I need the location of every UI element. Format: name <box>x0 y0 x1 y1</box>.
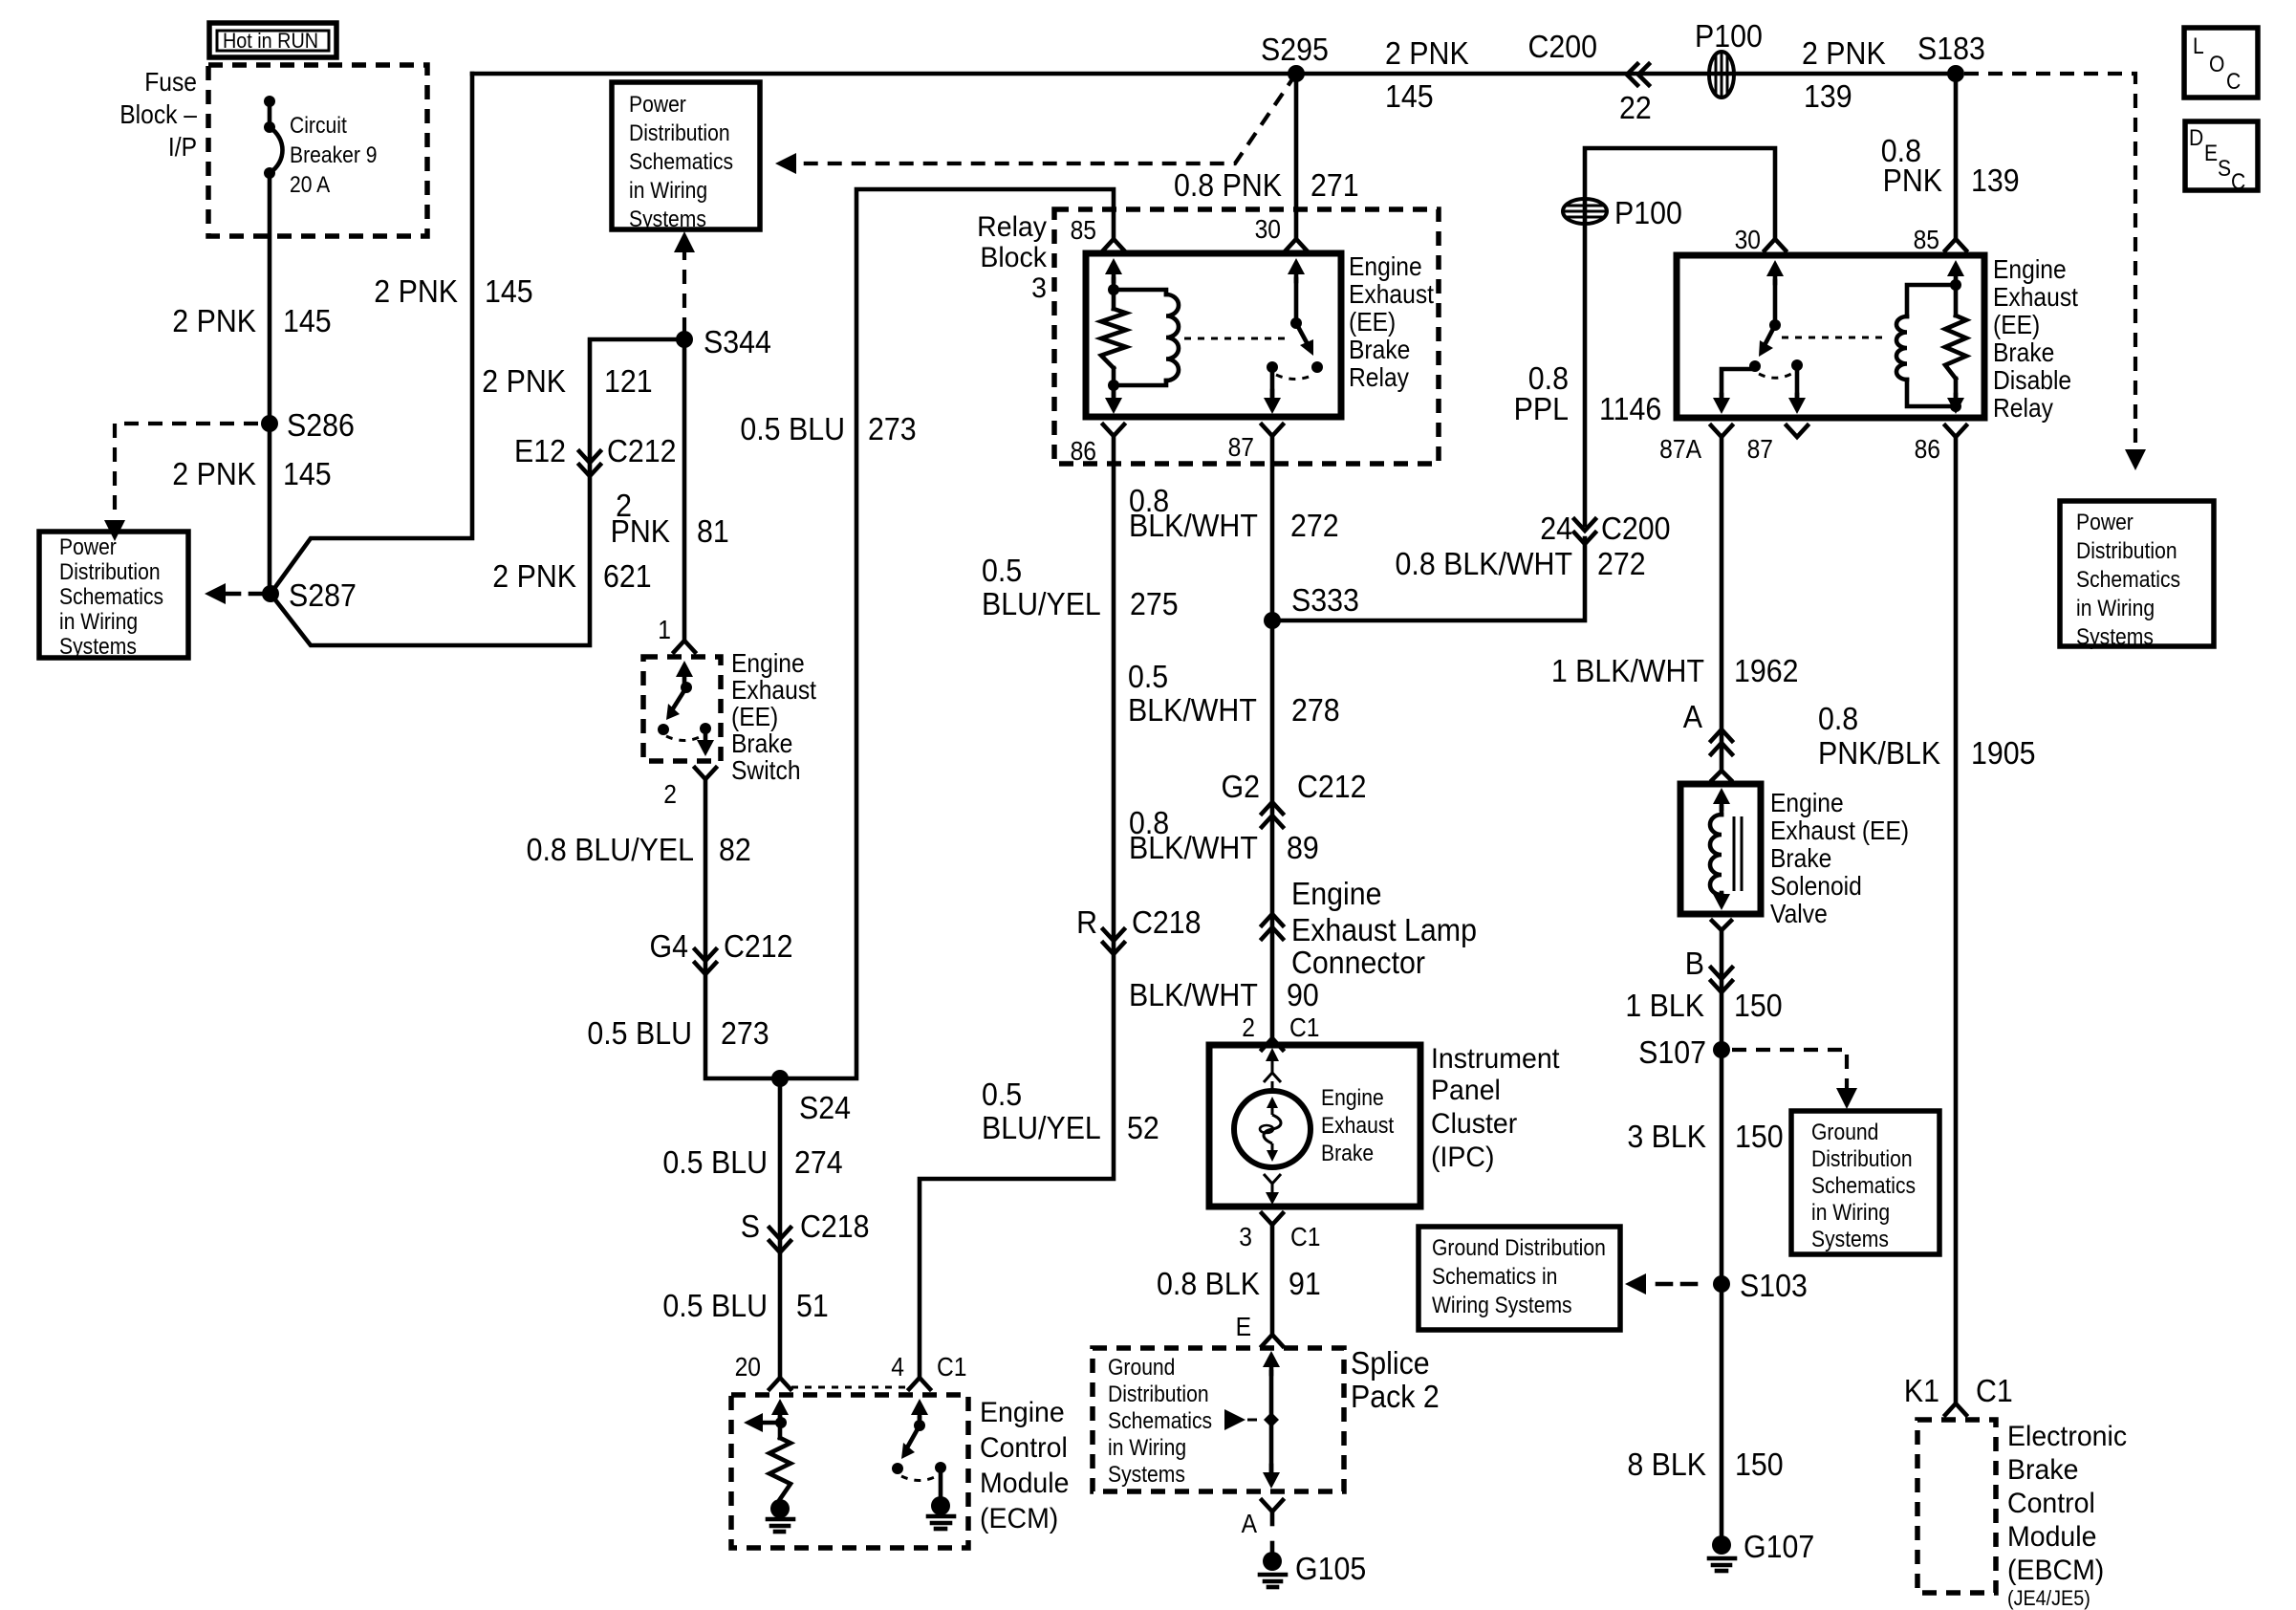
dashed arrow S103 to ground distribution box (left) <box>1625 1273 1646 1295</box>
svg-text:Switch: Switch <box>731 755 801 786</box>
brake switch internals <box>682 670 687 685</box>
svg-text:BLK/WHT: BLK/WHT <box>1128 692 1257 728</box>
svg-text:G107: G107 <box>1744 1529 1814 1564</box>
power distribution schematics box (right) <box>2060 501 2214 646</box>
Hot in RUN header box <box>209 23 336 57</box>
svg-text:Engine: Engine <box>980 1397 1065 1428</box>
svg-text:3: 3 <box>1031 272 1047 304</box>
svg-text:Schematics: Schematics <box>2076 567 2180 593</box>
svg-text:Brake: Brake <box>1321 1141 1374 1166</box>
svg-text:1 BLK: 1 BLK <box>1625 988 1704 1023</box>
svg-text:Distribution: Distribution <box>2076 538 2177 564</box>
svg-text:Schematics in: Schematics in <box>1432 1264 1557 1290</box>
pin 87A chevron and label <box>1711 425 1732 437</box>
EE brake relay solid box <box>1086 253 1341 417</box>
svg-text:S344: S344 <box>704 324 771 359</box>
svg-text:Relay: Relay <box>1993 393 2054 424</box>
svg-text:BLU/YEL: BLU/YEL <box>982 586 1101 621</box>
ECM resistor <box>778 1423 783 1438</box>
circuit breaker CB9 symbol <box>264 96 275 107</box>
svg-text:91: 91 <box>1289 1266 1321 1301</box>
IPC pin 3 C1 chevron and label <box>1262 1213 1283 1225</box>
svg-text:87A: 87A <box>1659 434 1701 465</box>
svg-text:G2: G2 <box>1222 769 1260 804</box>
wire IPC pin 3 down to splice pack (0.8 BLK 91) <box>1270 1225 1275 1333</box>
svg-text:A: A <box>1683 699 1703 734</box>
svg-text:139: 139 <box>1971 163 2020 198</box>
svg-text:Exhaust: Exhaust <box>1321 1113 1395 1139</box>
svg-text:C1: C1 <box>1976 1373 2013 1408</box>
solenoid pin B chevron <box>1712 921 1731 930</box>
svg-text:8 BLK: 8 BLK <box>1627 1447 1706 1482</box>
P100 grommet on top wire <box>1709 52 1734 98</box>
svg-text:P100: P100 <box>1695 18 1763 54</box>
svg-text:0.5 BLU: 0.5 BLU <box>740 411 845 446</box>
svg-text:Systems: Systems <box>59 634 137 660</box>
svg-text:272: 272 <box>1290 508 1339 543</box>
power distribution schematics box (lower left) <box>39 532 188 658</box>
svg-text:Systems: Systems <box>1108 1462 1185 1488</box>
wire S287 up to top feed (2 PNK 145) <box>271 74 472 594</box>
svg-text:Systems: Systems <box>1811 1227 1889 1252</box>
wire from circuit breaker down to S287 (2 PNK 145) <box>268 173 272 594</box>
svg-text:0.5 BLU: 0.5 BLU <box>662 1144 768 1180</box>
node S295 <box>1288 65 1305 82</box>
ground G105 <box>1263 1552 1282 1571</box>
svg-text:Engine: Engine <box>1770 788 1844 818</box>
dashed arrow from S344 up to power distribution box <box>682 247 686 332</box>
svg-text:S103: S103 <box>1740 1268 1808 1303</box>
solenoid internals <box>1720 797 1724 809</box>
svg-text:P100: P100 <box>1614 195 1682 230</box>
svg-text:C218: C218 <box>800 1208 870 1244</box>
IPC lamp feed arrow <box>1271 1055 1274 1073</box>
instrument panel cluster box <box>1209 1045 1420 1207</box>
disable relay coil <box>1907 285 1956 316</box>
svg-text:S: S <box>741 1208 760 1244</box>
svg-text:C200: C200 <box>1527 29 1597 64</box>
splice pack wire <box>1269 1360 1274 1374</box>
svg-text:0.5: 0.5 <box>982 1077 1022 1112</box>
svg-text:85: 85 <box>1071 215 1096 246</box>
svg-text:Ground: Ground <box>1811 1120 1878 1145</box>
svg-text:C200: C200 <box>1601 511 1671 546</box>
svg-text:Circuit: Circuit <box>290 113 347 139</box>
svg-text:87: 87 <box>1228 432 1254 463</box>
svg-text:2 PNK: 2 PNK <box>172 456 256 491</box>
wire S333 to C200 riser <box>1272 538 1585 620</box>
svg-text:82: 82 <box>719 832 751 867</box>
DESC legend box <box>2185 121 2258 190</box>
svg-text:90: 90 <box>1287 977 1319 1012</box>
svg-text:A: A <box>1242 1509 1258 1539</box>
ECM internal pull arrow <box>761 1421 780 1425</box>
ground G107 <box>1712 1535 1731 1555</box>
svg-text:Brake: Brake <box>1349 335 1410 365</box>
pin 87 chevron and label <box>1262 424 1283 436</box>
svg-text:PNK: PNK <box>611 513 670 549</box>
svg-text:20 A: 20 A <box>290 172 331 198</box>
main top feed wire 2 PNK 145 <box>472 72 1956 76</box>
svg-text:1: 1 <box>658 615 671 645</box>
node S107 <box>1713 1041 1730 1058</box>
wire S287 to S344 branch (2 PNK 621/121) <box>271 339 684 645</box>
svg-text:0.8 BLK/WHT: 0.8 BLK/WHT <box>1396 546 1572 581</box>
svg-text:I/P: I/P <box>168 132 197 163</box>
svg-text:Splice: Splice <box>1351 1345 1430 1381</box>
svg-text:Distribution: Distribution <box>1108 1382 1209 1407</box>
splice pack 2 dashed box <box>1093 1348 1344 1491</box>
svg-text:in Wiring: in Wiring <box>1108 1435 1186 1461</box>
svg-text:2 PNK: 2 PNK <box>1385 35 1469 71</box>
svg-text:Electronic: Electronic <box>2007 1421 2127 1452</box>
svg-text:C212: C212 <box>607 433 677 468</box>
svg-text:2 PNK: 2 PNK <box>172 303 256 338</box>
svg-text:0.5 BLU: 0.5 BLU <box>587 1015 692 1051</box>
svg-text:Brake: Brake <box>1770 843 1831 874</box>
svg-text:Engine: Engine <box>1349 251 1422 282</box>
svg-text:89: 89 <box>1287 830 1319 865</box>
svg-text:Ground: Ground <box>1108 1355 1175 1381</box>
svg-text:Module: Module <box>980 1468 1069 1499</box>
svg-text:in Wiring: in Wiring <box>2076 596 2155 621</box>
node S286 <box>261 415 278 432</box>
relay coil branch pin 85 <box>1112 268 1116 281</box>
svg-text:Fuse: Fuse <box>144 67 197 98</box>
svg-text:Engine: Engine <box>1291 876 1381 911</box>
wire relay pin 87 down to S333 (0.8 BLK/WHT 272) <box>1270 436 1275 620</box>
ECM internal ground (left) <box>770 1499 790 1518</box>
svg-text:Power: Power <box>2076 510 2134 535</box>
svg-text:1962: 1962 <box>1734 653 1799 688</box>
pin 2 connector chevron <box>695 768 716 779</box>
wire C200 up to disable relay pin 30 (0.8 PPL 1146) <box>1585 148 1775 525</box>
svg-text:R: R <box>1076 904 1097 940</box>
svg-text:2 PNK: 2 PNK <box>482 363 566 399</box>
svg-text:Module: Module <box>2007 1521 2096 1553</box>
wire disable relay pin 86 down to EBCM (0.8 PNK/BLK 1905) <box>1954 437 1959 1403</box>
svg-text:Schematics: Schematics <box>59 584 163 610</box>
svg-text:145: 145 <box>1385 78 1434 114</box>
svg-text:Engine: Engine <box>1321 1085 1384 1111</box>
svg-text:(JE4/JE5): (JE4/JE5) <box>2007 1587 2090 1610</box>
svg-text:Pack 2: Pack 2 <box>1351 1379 1440 1414</box>
svg-text:86: 86 <box>1915 434 1940 465</box>
relay switch pin 30 <box>1294 268 1299 281</box>
svg-text:Valve: Valve <box>1770 899 1828 929</box>
electronic brake control module dashed box <box>1917 1420 1996 1593</box>
svg-text:S286: S286 <box>287 407 355 443</box>
svg-text:C1: C1 <box>937 1352 966 1382</box>
svg-text:2: 2 <box>663 779 677 810</box>
svg-text:E: E <box>1236 1312 1251 1342</box>
svg-text:145: 145 <box>283 456 332 491</box>
node S344 <box>676 331 693 348</box>
svg-text:121: 121 <box>604 363 653 399</box>
svg-text:in Wiring: in Wiring <box>629 178 707 204</box>
dashed branch S183 to power distribution box (right) <box>1964 74 2135 447</box>
ECM switch arm <box>906 1425 920 1449</box>
svg-text:2: 2 <box>1242 1012 1255 1043</box>
svg-text:85: 85 <box>1914 225 1939 255</box>
svg-text:0.5: 0.5 <box>982 553 1022 588</box>
svg-text:Control: Control <box>2007 1488 2095 1519</box>
svg-text:Block: Block <box>980 242 1047 273</box>
svg-text:Exhaust: Exhaust <box>1349 279 1435 310</box>
svg-text:(ECM): (ECM) <box>980 1503 1058 1534</box>
disable relay switch arm <box>1764 325 1775 347</box>
ECM connector dash line <box>791 1386 908 1389</box>
svg-text:2 PNK: 2 PNK <box>492 558 576 594</box>
svg-text:O: O <box>2209 52 2224 77</box>
svg-text:3: 3 <box>1239 1222 1252 1252</box>
svg-text:0.8 PNK: 0.8 PNK <box>1174 167 1282 203</box>
IPC exit chevron to pin 3 <box>1264 1174 1281 1184</box>
svg-text:150: 150 <box>1735 1119 1784 1154</box>
disable relay coil branch pin 85 <box>1954 270 1959 283</box>
splice pack pin A chevron and label <box>1262 1500 1283 1512</box>
svg-text:621: 621 <box>603 558 652 594</box>
svg-text:81: 81 <box>697 513 729 549</box>
disable relay coil exit pin 86 <box>1954 395 1959 404</box>
P100 grommet (vertical wire) <box>1563 199 1607 224</box>
svg-text:B: B <box>1685 946 1704 981</box>
svg-text:C: C <box>2226 69 2241 95</box>
svg-text:86: 86 <box>1071 436 1096 467</box>
svg-text:Ground Distribution: Ground Distribution <box>1432 1235 1606 1261</box>
svg-text:150: 150 <box>1735 1447 1784 1482</box>
svg-text:274: 274 <box>794 1144 843 1180</box>
svg-text:Hot in RUN: Hot in RUN <box>223 30 318 53</box>
svg-text:Connector: Connector <box>1291 945 1425 980</box>
svg-text:150: 150 <box>1734 988 1783 1023</box>
svg-text:87: 87 <box>1747 434 1773 465</box>
wire S333 continues down to IPC pin 2 (0.5 BLK/WHT 278) <box>1270 620 1275 1038</box>
ECM internal ground (right) <box>939 1468 943 1497</box>
svg-text:BLK/WHT: BLK/WHT <box>1129 508 1258 543</box>
svg-text:51: 51 <box>796 1288 829 1323</box>
svg-text:S183: S183 <box>1917 31 1985 66</box>
splice junction <box>1264 1412 1279 1427</box>
svg-text:Distribution: Distribution <box>629 120 730 146</box>
engine exhaust brake solenoid valve box <box>1680 784 1761 914</box>
svg-text:273: 273 <box>721 1015 769 1051</box>
pin 86 chevron and label <box>1945 425 1966 437</box>
node S103 <box>1713 1275 1730 1293</box>
svg-text:G4: G4 <box>650 928 688 964</box>
svg-text:Exhaust (EE): Exhaust (EE) <box>1770 816 1909 846</box>
wire S295 down to relay pin 30 (0.8 PNK 271) <box>1294 74 1299 239</box>
svg-text:0.8: 0.8 <box>1818 701 1858 736</box>
engine exhaust brake switch dashed box <box>643 657 721 761</box>
svg-text:S295: S295 <box>1261 32 1329 67</box>
svg-text:24: 24 <box>1540 511 1572 546</box>
wire S183 down to disable relay pin 85 (0.8 PNK 139) <box>1954 74 1959 239</box>
svg-text:S287: S287 <box>289 577 357 613</box>
pin 87 chevron and label <box>1787 425 1808 437</box>
svg-text:C: C <box>2231 169 2245 195</box>
svg-text:Distribution: Distribution <box>1811 1146 1913 1172</box>
disable relay switch link dashed <box>1782 337 1886 339</box>
svg-text:C1: C1 <box>1289 1012 1319 1043</box>
wire S24 down to ECM pin 20 (0.5 BLU 274/51) <box>778 1078 783 1378</box>
disable relay resistor <box>1954 285 1959 315</box>
wire 0.5 BLU 273 from S24 up over to relay pin 85 <box>780 189 1114 1078</box>
svg-text:(EE): (EE) <box>1349 307 1396 337</box>
svg-text:275: 275 <box>1130 586 1179 621</box>
svg-text:0.5 BLU: 0.5 BLU <box>662 1288 768 1323</box>
EE brake disable relay solid box <box>1677 255 1984 418</box>
svg-text:E: E <box>2204 141 2218 166</box>
svg-text:PNK/BLK: PNK/BLK <box>1818 735 1940 771</box>
svg-text:Wiring Systems: Wiring Systems <box>1432 1293 1572 1318</box>
svg-text:C218: C218 <box>1132 904 1202 940</box>
node S24 <box>771 1070 789 1087</box>
wire splice pack to G105 <box>1270 1512 1275 1524</box>
svg-text:E12: E12 <box>514 433 566 468</box>
disable relay pin 87 stub <box>1795 365 1800 398</box>
wire pin 87A down to solenoid valve (1 BLK/WHT 1962) <box>1720 437 1724 768</box>
svg-text:Block –: Block – <box>119 99 197 130</box>
svg-text:Brake: Brake <box>2007 1454 2078 1486</box>
svg-text:Schematics: Schematics <box>1811 1173 1916 1199</box>
ground distribution schematics in wiring systems box <box>1419 1227 1620 1330</box>
svg-text:Schematics: Schematics <box>629 149 733 175</box>
svg-text:PNK: PNK <box>1883 163 1942 198</box>
svg-text:22: 22 <box>1619 90 1652 125</box>
pin 1 connector chevron <box>674 641 695 652</box>
svg-text:Engine: Engine <box>1993 254 2067 285</box>
svg-text:Instrument: Instrument <box>1431 1043 1560 1075</box>
svg-text:C212: C212 <box>1297 769 1367 804</box>
dashed arrow from S287 into power distribution box <box>205 583 226 604</box>
svg-text:(EBCM): (EBCM) <box>2007 1555 2104 1586</box>
svg-text:0.8 BLK: 0.8 BLK <box>1157 1266 1260 1301</box>
svg-text:BLU/YEL: BLU/YEL <box>982 1110 1101 1145</box>
svg-text:52: 52 <box>1127 1110 1159 1145</box>
svg-text:Cluster: Cluster <box>1431 1108 1517 1140</box>
svg-text:3 BLK: 3 BLK <box>1627 1119 1706 1154</box>
svg-text:Power: Power <box>59 534 117 560</box>
svg-text:K1: K1 <box>1904 1373 1939 1408</box>
svg-text:C212: C212 <box>724 928 793 964</box>
svg-text:30: 30 <box>1255 214 1281 245</box>
svg-text:272: 272 <box>1597 546 1646 581</box>
svg-text:1905: 1905 <box>1971 735 2036 771</box>
svg-text:D: D <box>2189 125 2203 151</box>
svg-text:C1: C1 <box>1290 1222 1320 1252</box>
svg-text:Relay: Relay <box>977 211 1047 243</box>
svg-text:BLK/WHT: BLK/WHT <box>1129 977 1258 1012</box>
svg-text:(EE): (EE) <box>1993 310 2040 340</box>
pin 86 chevron and label <box>1103 424 1124 436</box>
engine exhaust lamp connector chevrons <box>1262 927 1283 939</box>
svg-text:Power: Power <box>629 92 686 118</box>
node S183 <box>1947 65 1964 82</box>
svg-text:145: 145 <box>283 303 332 338</box>
svg-text:Schematics: Schematics <box>1108 1408 1212 1434</box>
relay switch link dashed <box>1184 337 1289 340</box>
ECM pin 20 input arrow <box>778 1408 783 1420</box>
ground distribution schematics box (right) <box>1791 1111 1939 1254</box>
solenoid valve pin chevron <box>1712 771 1731 780</box>
wire relay pin 86 down to ECM pin 4 (0.5 BLU/YEL) <box>920 436 1114 1378</box>
engine exhaust brake indicator <box>1234 1091 1310 1167</box>
fuse block dashed box <box>208 65 427 236</box>
svg-text:20: 20 <box>735 1352 761 1382</box>
relay resistor <box>1112 290 1116 309</box>
svg-text:30: 30 <box>1735 225 1761 255</box>
dashed branch from S295 to power distribution (left arrow) <box>779 74 1296 163</box>
relay switch arm <box>1296 323 1309 346</box>
svg-text:2 PNK: 2 PNK <box>1802 35 1886 71</box>
node S333 <box>1264 612 1281 629</box>
svg-text:Distribution: Distribution <box>59 559 161 585</box>
svg-text:L: L <box>2193 33 2204 59</box>
svg-text:1 BLK/WHT: 1 BLK/WHT <box>1551 653 1704 688</box>
relay coil <box>1114 290 1166 294</box>
svg-text:Breaker 9: Breaker 9 <box>290 142 378 168</box>
svg-text:Control: Control <box>980 1432 1068 1464</box>
svg-text:S333: S333 <box>1291 582 1359 618</box>
svg-text:Relay: Relay <box>1349 362 1410 393</box>
svg-text:Systems: Systems <box>629 207 706 232</box>
svg-text:G105: G105 <box>1295 1551 1366 1586</box>
svg-text:Brake: Brake <box>1993 337 2054 368</box>
relay coil exit to pin 86 <box>1112 385 1116 398</box>
svg-text:in Wiring: in Wiring <box>1811 1200 1890 1226</box>
relay pin 87 exit <box>1270 367 1275 398</box>
wire switch pin 2 down to S24 (0.8 BLU/YEL 82) <box>705 779 780 1078</box>
svg-text:145: 145 <box>485 273 533 309</box>
svg-text:PPL: PPL <box>1514 391 1569 426</box>
svg-text:(IPC): (IPC) <box>1431 1142 1494 1173</box>
svg-text:4: 4 <box>891 1352 904 1382</box>
svg-text:2 PNK: 2 PNK <box>374 273 458 309</box>
svg-text:1146: 1146 <box>1599 391 1661 426</box>
dashed branch from S286 to power distribution box <box>115 424 258 518</box>
svg-text:BLK/WHT: BLK/WHT <box>1129 830 1258 865</box>
wire solenoid to G107 (1 BLK 150) <box>1720 930 1724 1549</box>
power distribution schematics box (mid top) <box>612 82 760 229</box>
wire S344 down to brake switch pin 1 (2 PNK 81) <box>682 339 687 641</box>
relay block 3 dashed box <box>1054 209 1439 464</box>
svg-text:Disable: Disable <box>1993 365 2071 396</box>
svg-text:273: 273 <box>868 411 917 446</box>
node S287 <box>262 585 279 602</box>
svg-text:S: S <box>2218 156 2231 182</box>
svg-text:271: 271 <box>1310 167 1359 203</box>
svg-text:in Wiring: in Wiring <box>59 609 138 635</box>
svg-text:Panel: Panel <box>1431 1075 1501 1106</box>
svg-text:0.5: 0.5 <box>1128 659 1168 694</box>
svg-text:0.8 BLU/YEL: 0.8 BLU/YEL <box>527 832 694 867</box>
disable relay pin 87A path <box>1722 366 1755 398</box>
svg-text:278: 278 <box>1291 692 1340 728</box>
svg-text:S24: S24 <box>799 1090 851 1125</box>
svg-text:Exhaust: Exhaust <box>1993 282 2079 313</box>
dashed branch S107 to ground distribution box <box>1732 1050 1847 1096</box>
ECM pin 4 input arrow <box>918 1408 922 1420</box>
svg-text:Solenoid: Solenoid <box>1770 871 1862 902</box>
LOC legend box <box>2184 28 2258 98</box>
svg-text:Systems: Systems <box>2076 624 2154 650</box>
svg-text:Exhaust Lamp: Exhaust Lamp <box>1291 912 1477 947</box>
engine control module dashed box <box>731 1395 968 1548</box>
svg-text:S107: S107 <box>1638 1034 1706 1070</box>
disable relay switch pin 30 <box>1773 270 1778 283</box>
svg-text:139: 139 <box>1804 78 1852 114</box>
